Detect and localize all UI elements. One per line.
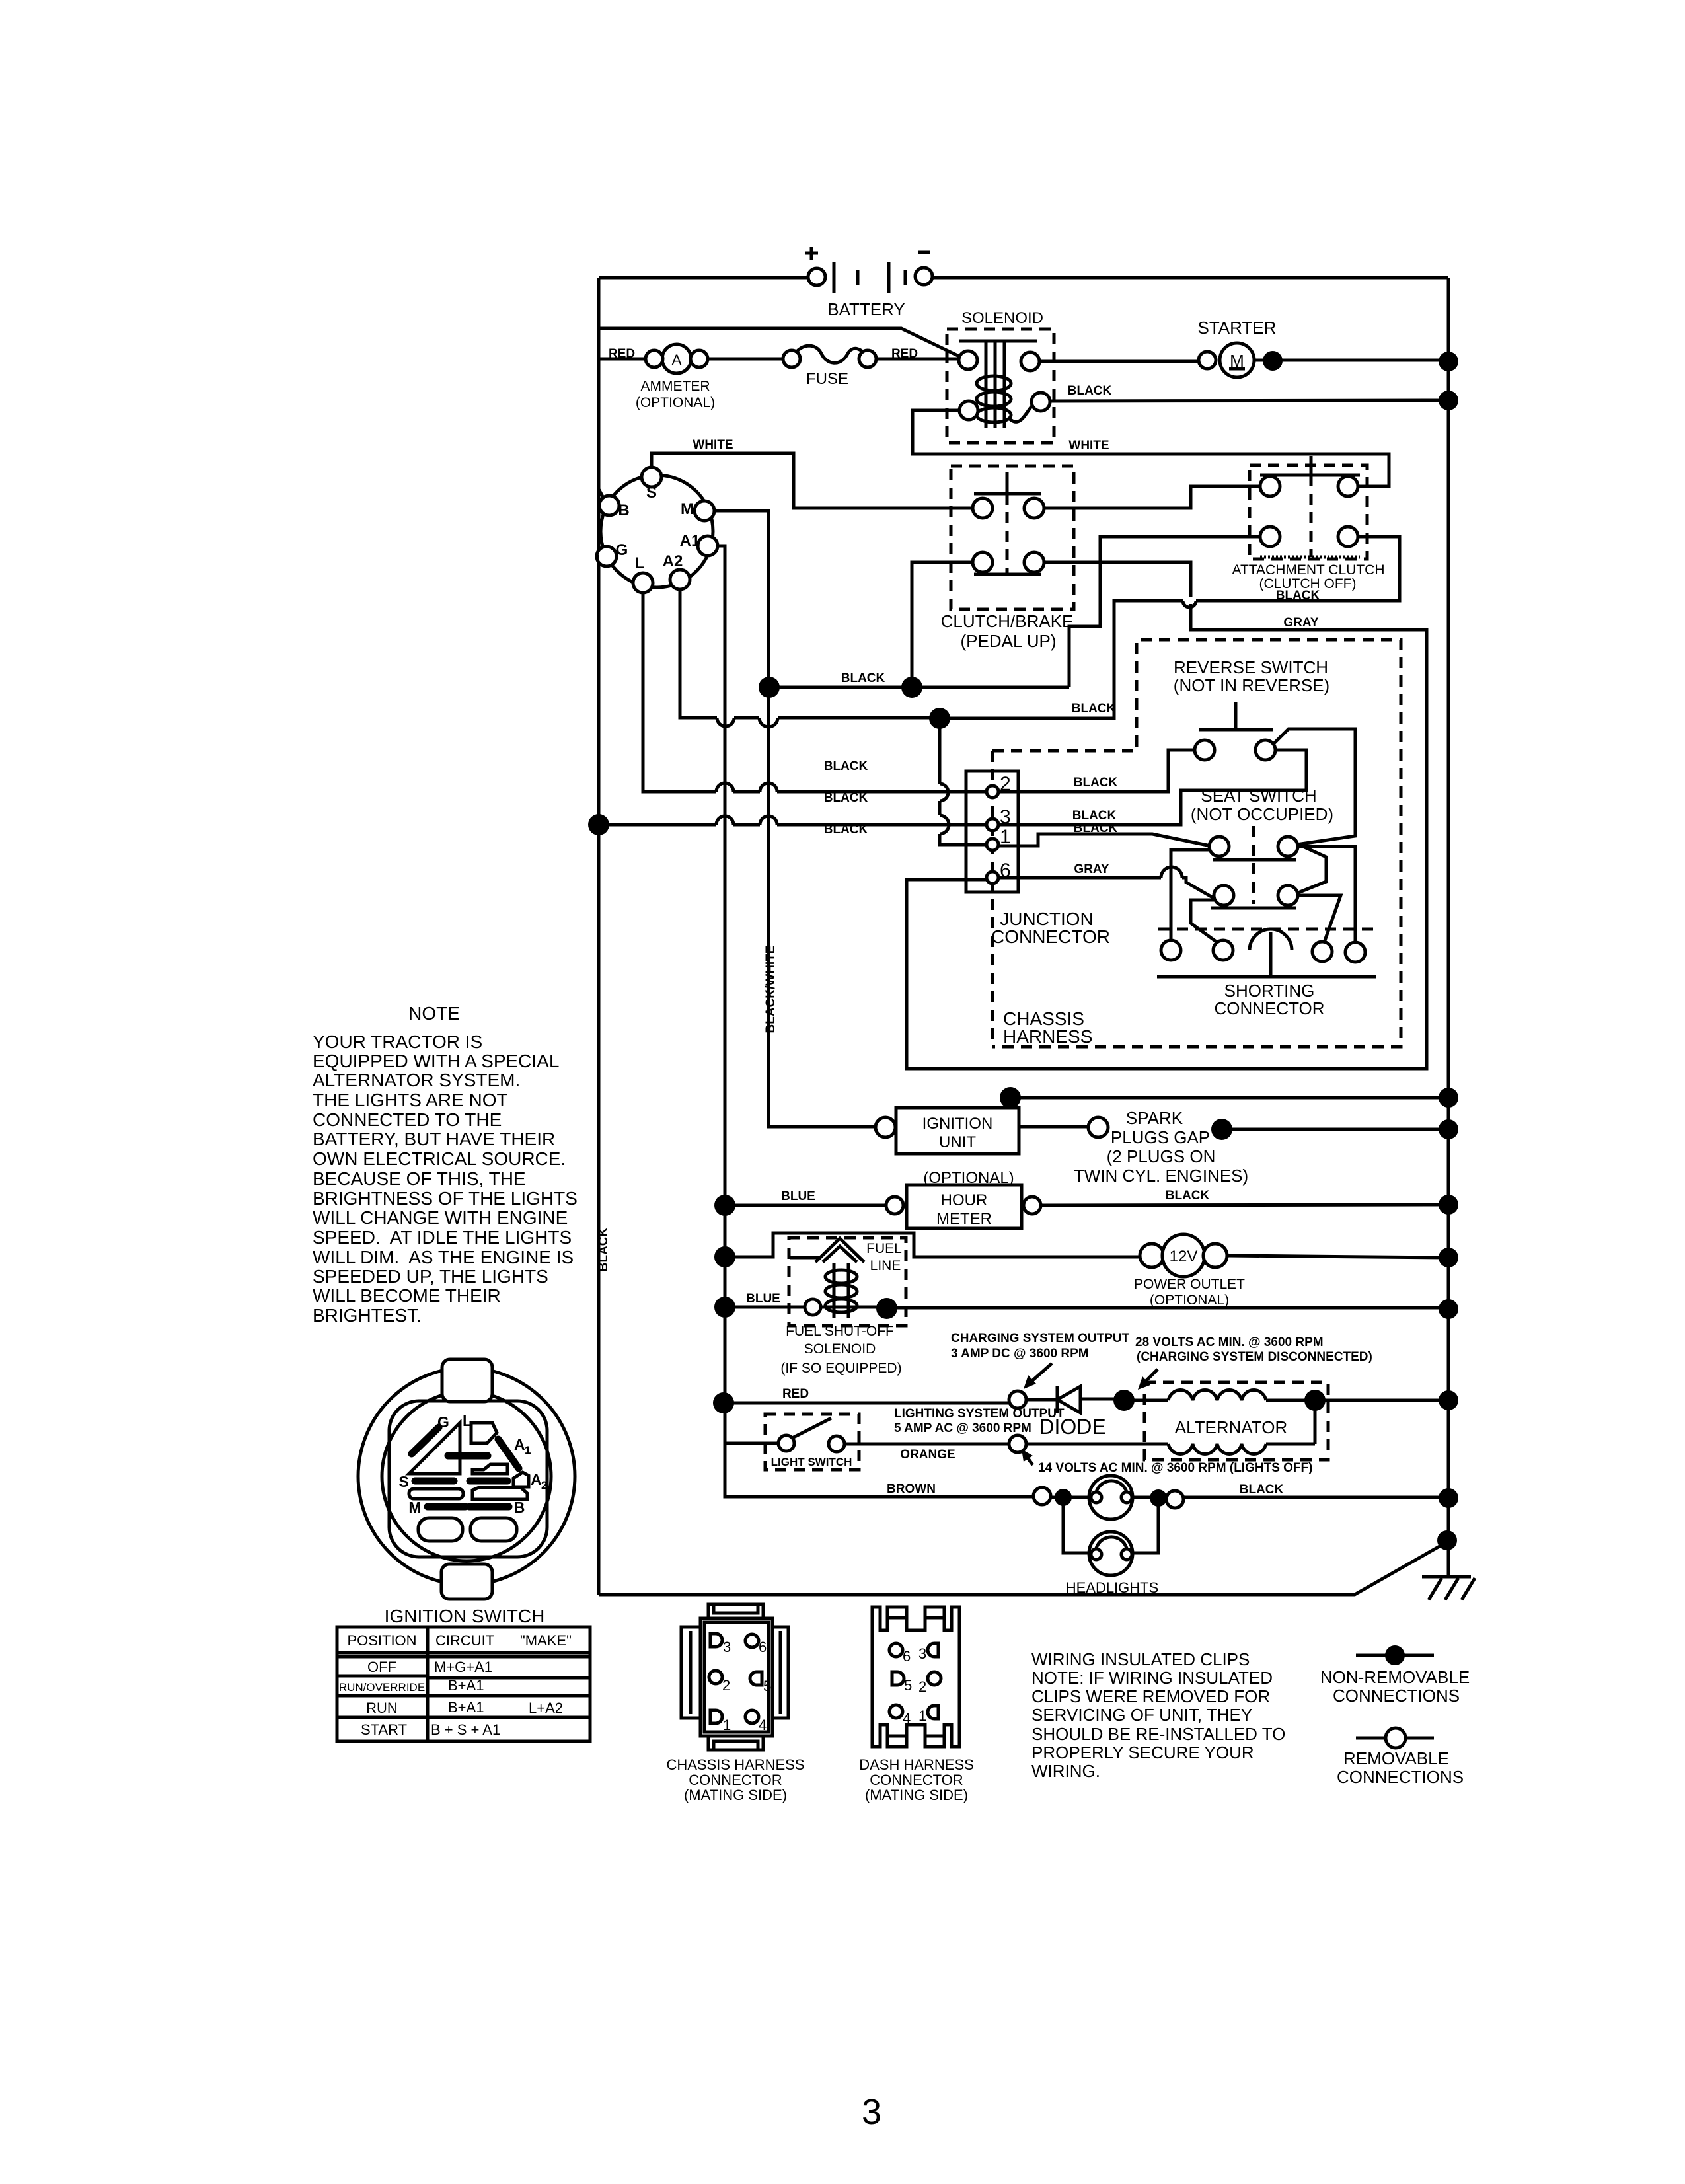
svg-text:3 AMP DC @ 3600 RPM: 3 AMP DC @ 3600 RPM — [951, 1347, 1089, 1361]
svg-text:SOLENOID: SOLENOID — [961, 309, 1043, 327]
svg-text:CHASSIS HARNESS: CHASSIS HARNESS — [666, 1756, 804, 1773]
svg-text:A: A — [672, 352, 682, 368]
svg-text:BLACK: BLACK — [824, 823, 868, 837]
svg-text:WHITE: WHITE — [693, 438, 733, 452]
svg-text:OFF: OFF — [367, 1659, 396, 1675]
svg-text:1: 1 — [918, 1708, 926, 1724]
svg-text:OWN ELECTRICAL SOURCE.: OWN ELECTRICAL SOURCE. — [313, 1148, 566, 1169]
svg-text:HARNESS: HARNESS — [1003, 1026, 1092, 1047]
svg-text:A2: A2 — [663, 552, 683, 570]
svg-text:3: 3 — [862, 2092, 881, 2132]
svg-text:B + S + A1: B + S + A1 — [431, 1721, 500, 1738]
svg-text:5 AMP AC @ 3600 RPM: 5 AMP AC @ 3600 RPM — [894, 1421, 1031, 1435]
svg-text:2: 2 — [541, 1479, 547, 1491]
svg-text:L+A2: L+A2 — [529, 1700, 563, 1716]
svg-text:RUN: RUN — [366, 1700, 398, 1716]
svg-text:G: G — [437, 1413, 449, 1431]
svg-text:ORANGE: ORANGE — [900, 1448, 955, 1462]
svg-text:YOUR TRACTOR IS: YOUR TRACTOR IS — [313, 1032, 482, 1052]
svg-text:BRIGHTNESS OF THE LIGHTS: BRIGHTNESS OF THE LIGHTS — [313, 1188, 578, 1209]
svg-text:REVERSE SWITCH: REVERSE SWITCH — [1174, 658, 1328, 677]
svg-text:BATTERY: BATTERY — [827, 299, 905, 319]
svg-text:AMMETER: AMMETER — [641, 379, 710, 394]
svg-text:B+A1: B+A1 — [448, 1677, 484, 1694]
svg-text:2: 2 — [722, 1677, 730, 1694]
svg-text:6: 6 — [759, 1639, 767, 1655]
svg-text:CLUTCH/BRAKE: CLUTCH/BRAKE — [941, 611, 1074, 631]
svg-text:IGNITION SWITCH: IGNITION SWITCH — [385, 1606, 545, 1626]
svg-text:BLACK: BLACK — [597, 1227, 611, 1271]
svg-text:THE LIGHTS ARE NOT: THE LIGHTS ARE NOT — [313, 1090, 508, 1110]
svg-text:HEADLIGHTS: HEADLIGHTS — [1066, 1579, 1159, 1596]
svg-text:SERVICING OF UNIT, THEY: SERVICING OF UNIT, THEY — [1031, 1705, 1252, 1725]
svg-text:CIRCUIT: CIRCUIT — [435, 1632, 494, 1649]
svg-text:ATTACHMENT CLUTCH: ATTACHMENT CLUTCH — [1232, 562, 1385, 578]
svg-text:FUSE: FUSE — [806, 370, 848, 388]
svg-text:SOLENOID: SOLENOID — [804, 1341, 876, 1357]
svg-text:IGNITION: IGNITION — [922, 1115, 993, 1133]
svg-text:3: 3 — [723, 1639, 731, 1655]
svg-text:28 VOLTS AC MIN. @ 3600 RPM: 28 VOLTS AC MIN. @ 3600 RPM — [1135, 1336, 1324, 1349]
svg-text:HOUR: HOUR — [941, 1191, 988, 1209]
svg-text:RED: RED — [782, 1387, 809, 1401]
svg-text:L: L — [463, 1412, 472, 1429]
svg-text:LIGHTING SYSTEM OUTPUT: LIGHTING SYSTEM OUTPUT — [894, 1407, 1065, 1421]
svg-text:A: A — [531, 1471, 542, 1488]
svg-text:S: S — [646, 484, 657, 502]
svg-text:L: L — [635, 554, 645, 572]
svg-text:2: 2 — [918, 1678, 926, 1695]
svg-text:A: A — [514, 1436, 525, 1453]
svg-text:12V: 12V — [1170, 1248, 1198, 1265]
svg-text:BLUE: BLUE — [781, 1189, 815, 1203]
svg-text:LINE: LINE — [870, 1258, 901, 1273]
svg-text:5: 5 — [904, 1677, 912, 1694]
svg-text:ALTERNATOR: ALTERNATOR — [1175, 1417, 1287, 1437]
svg-text:UNIT: UNIT — [939, 1133, 976, 1151]
svg-text:WIRING.: WIRING. — [1031, 1761, 1100, 1781]
svg-text:BLUE: BLUE — [746, 1292, 780, 1306]
svg-text:BLACK: BLACK — [1074, 776, 1118, 790]
svg-text:TWIN CYL. ENGINES): TWIN CYL. ENGINES) — [1074, 1166, 1248, 1186]
svg-text:FUEL SHUT-OFF: FUEL SHUT-OFF — [786, 1324, 894, 1339]
svg-text:WHITE: WHITE — [1068, 439, 1109, 453]
svg-text:NOTE: NOTE — [408, 1003, 460, 1024]
svg-text:5: 5 — [763, 1678, 771, 1694]
svg-text:EQUIPPED WITH A SPECIAL: EQUIPPED WITH A SPECIAL — [313, 1051, 559, 1071]
svg-text:(CHARGING SYSTEM DISCONNECTED): (CHARGING SYSTEM DISCONNECTED) — [1137, 1350, 1372, 1364]
svg-text:BLACK: BLACK — [1072, 809, 1117, 823]
svg-text:A1: A1 — [680, 532, 700, 550]
svg-text:BLACK: BLACK — [841, 671, 885, 685]
svg-text:M: M — [681, 500, 694, 518]
svg-text:1: 1 — [525, 1444, 531, 1456]
svg-text:BLACK: BLACK — [1068, 384, 1112, 398]
svg-text:BECAUSE OF THIS, THE: BECAUSE OF THIS, THE — [313, 1168, 526, 1189]
svg-text:SPARK: SPARK — [1126, 1108, 1183, 1128]
svg-text:B: B — [514, 1499, 525, 1516]
svg-text:WILL CHANGE WITH ENGINE: WILL CHANGE WITH ENGINE — [313, 1207, 568, 1228]
svg-text:PROPERLY SECURE YOUR: PROPERLY SECURE YOUR — [1031, 1743, 1254, 1762]
svg-text:1: 1 — [723, 1717, 731, 1733]
svg-text:(MATING SIDE): (MATING SIDE) — [865, 1787, 968, 1803]
svg-text:3: 3 — [918, 1645, 926, 1662]
svg-text:(OPTIONAL): (OPTIONAL) — [1150, 1293, 1229, 1308]
svg-text:BLACK: BLACK — [1166, 1189, 1210, 1203]
svg-text:CONNECTOR: CONNECTOR — [991, 926, 1110, 947]
svg-text:(OPTIONAL): (OPTIONAL) — [636, 395, 715, 410]
svg-text:BATTERY, BUT HAVE THEIR: BATTERY, BUT HAVE THEIR — [313, 1129, 555, 1149]
svg-text:POSITION: POSITION — [347, 1632, 416, 1649]
svg-text:BLACK: BLACK — [824, 791, 868, 805]
svg-text:GRAY: GRAY — [1074, 862, 1109, 876]
svg-text:POWER OUTLET: POWER OUTLET — [1134, 1277, 1245, 1292]
svg-text:BLACK: BLACK — [1240, 1483, 1284, 1497]
svg-text:CONNECTIONS: CONNECTIONS — [1337, 1767, 1464, 1787]
svg-text:NOTE: IF WIRING INSULATED: NOTE: IF WIRING INSULATED — [1031, 1668, 1273, 1688]
svg-text:BRIGHTEST.: BRIGHTEST. — [313, 1305, 422, 1326]
svg-text:CONNECTOR: CONNECTOR — [689, 1772, 782, 1788]
svg-text:BLACK: BLACK — [1072, 702, 1116, 716]
svg-text:6: 6 — [903, 1648, 911, 1665]
svg-text:WILL BECOME THEIR: WILL BECOME THEIR — [313, 1285, 501, 1306]
svg-text:LIGHT SWITCH: LIGHT SWITCH — [771, 1456, 852, 1468]
svg-text:CONNECTIONS: CONNECTIONS — [1333, 1686, 1460, 1706]
svg-text:"MAKE": "MAKE" — [520, 1632, 572, 1649]
svg-text:B: B — [618, 502, 629, 519]
svg-text:WILL DIM. AS THE ENGINE IS: WILL DIM. AS THE ENGINE IS — [313, 1247, 574, 1267]
svg-text:CHARGING SYSTEM OUTPUT: CHARGING SYSTEM OUTPUT — [951, 1332, 1130, 1345]
svg-text:M+G+A1: M+G+A1 — [434, 1659, 492, 1675]
svg-text:SPEED. AT IDLE THE LIGHTS: SPEED. AT IDLE THE LIGHTS — [313, 1227, 572, 1248]
svg-text:RUN/OVERRIDE: RUN/OVERRIDE — [339, 1681, 425, 1694]
svg-text:B+A1: B+A1 — [448, 1699, 484, 1715]
svg-text:RED: RED — [609, 347, 635, 361]
svg-text:(NOT OCCUPIED): (NOT OCCUPIED) — [1191, 804, 1333, 824]
svg-text:M: M — [408, 1499, 421, 1516]
svg-text:(PEDAL UP): (PEDAL UP) — [961, 631, 1057, 651]
svg-text:SEAT SWITCH: SEAT SWITCH — [1201, 786, 1316, 806]
svg-text:RED: RED — [891, 347, 918, 361]
svg-text:CONNECTED TO THE: CONNECTED TO THE — [313, 1110, 502, 1130]
svg-text:(NOT IN REVERSE): (NOT IN REVERSE) — [1174, 675, 1329, 695]
svg-text:GRAY: GRAY — [1283, 616, 1318, 630]
svg-text:NON-REMOVABLE: NON-REMOVABLE — [1320, 1667, 1470, 1687]
svg-text:FUEL: FUEL — [866, 1241, 902, 1256]
svg-text:4: 4 — [903, 1710, 911, 1727]
svg-text:STARTER: STARTER — [1198, 318, 1277, 338]
svg-text:14 VOLTS AC MIN. @ 3600 RPM (L: 14 VOLTS AC MIN. @ 3600 RPM (LIGHTS OFF) — [1038, 1461, 1312, 1475]
svg-text:BLACK: BLACK — [824, 759, 868, 773]
svg-text:(IF SO EQUIPPED): (IF SO EQUIPPED) — [780, 1361, 901, 1376]
svg-text:CONNECTOR: CONNECTOR — [870, 1772, 963, 1788]
svg-text:CONNECTOR: CONNECTOR — [1214, 998, 1324, 1018]
svg-text:SHORTING: SHORTING — [1224, 981, 1315, 1000]
svg-text:WIRING INSULATED CLIPS: WIRING INSULATED CLIPS — [1031, 1649, 1250, 1669]
svg-text:ALTERNATOR SYSTEM.: ALTERNATOR SYSTEM. — [313, 1070, 520, 1090]
svg-text:BROWN: BROWN — [887, 1482, 936, 1496]
svg-text:DASH HARNESS: DASH HARNESS — [859, 1756, 974, 1773]
svg-text:METER: METER — [936, 1210, 992, 1228]
svg-text:(MATING SIDE): (MATING SIDE) — [684, 1787, 787, 1803]
svg-text:CLIPS WERE REMOVED FOR: CLIPS WERE REMOVED FOR — [1031, 1686, 1270, 1706]
svg-text:G: G — [616, 541, 628, 559]
svg-text:SHOULD BE RE-INSTALLED TO: SHOULD BE RE-INSTALLED TO — [1031, 1724, 1285, 1744]
svg-text:REMOVABLE: REMOVABLE — [1343, 1749, 1449, 1768]
svg-text:S: S — [398, 1473, 408, 1490]
svg-text:4: 4 — [759, 1717, 767, 1733]
svg-text:BLACK/WHITE: BLACK/WHITE — [764, 946, 778, 1034]
svg-text:(2 PLUGS ON: (2 PLUGS ON — [1107, 1147, 1216, 1166]
svg-text:PLUGS GAP: PLUGS GAP — [1111, 1127, 1210, 1147]
svg-text:START: START — [361, 1721, 407, 1738]
svg-text:SPEEDED UP, THE LIGHTS: SPEEDED UP, THE LIGHTS — [313, 1266, 548, 1287]
svg-text:BLACK: BLACK — [1074, 821, 1118, 835]
